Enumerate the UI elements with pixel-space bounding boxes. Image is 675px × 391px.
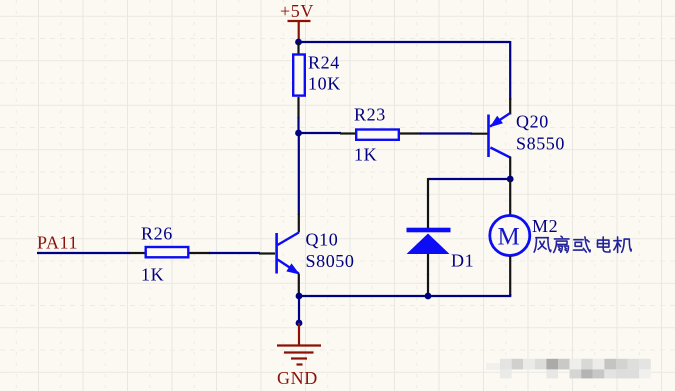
wire PA11 to R26: [37, 252, 130, 254]
pin Q10 collector: [298, 214, 300, 233]
pin M2 top: [509, 179, 511, 215]
pin R23 left: [340, 132, 355, 134]
svg-text:GND: GND: [277, 368, 318, 388]
label char huo (or): [574, 237, 591, 252]
wire bottom rail: [299, 294, 510, 296]
resistor R24: [293, 55, 305, 96]
node top junction: [295, 39, 302, 46]
wire top rail: [299, 41, 511, 43]
svg-text:D1: D1: [451, 251, 474, 271]
pin D1 cathode: [427, 195, 429, 228]
pin Q10 emitter: [298, 274, 300, 297]
svg-text:10K: 10K: [308, 74, 341, 94]
wire D1 cathode drop: [427, 178, 429, 196]
pin R24 top: [297, 42, 299, 54]
pin R26 left: [129, 252, 145, 254]
wire R23 to Q20: [420, 132, 472, 134]
svg-text:1K: 1K: [354, 145, 377, 165]
svg-text:R23: R23: [354, 105, 386, 125]
pin Q20 emitter: [509, 98, 511, 115]
svg-text:PA11: PA11: [37, 233, 78, 253]
pin D1 anode: [427, 254, 429, 275]
label char feng (wind): [534, 238, 551, 252]
svg-text:1K: 1K: [141, 265, 164, 285]
wire D1 anode to bottom rail: [427, 274, 429, 294]
wire Q20 emitter drop: [509, 41, 511, 100]
svg-text:+5V: +5V: [280, 1, 314, 21]
pin R26 right: [190, 252, 211, 254]
ground GND symbol: [277, 323, 321, 365]
power port +5V bar symbol: [288, 21, 311, 42]
label char shan (fan): [554, 236, 569, 252]
node Q10 emitter junction: [296, 293, 303, 300]
svg-text:M: M: [498, 224, 521, 251]
wire emitter junction to GND: [298, 296, 300, 323]
motor M2: [490, 216, 631, 256]
svg-text:R26: R26: [141, 224, 173, 244]
node D1 bottom junction: [425, 293, 432, 300]
pin M2 bottom: [509, 256, 511, 296]
transistor Q20 S8550: [487, 112, 565, 158]
label char ji (machine): [614, 237, 631, 253]
pin Q20 collector: [509, 157, 511, 180]
pin R24 bottom: [297, 97, 299, 118]
svg-text:R24: R24: [308, 53, 340, 73]
label fan-or-motor CJK: [534, 236, 631, 252]
label char dian (electric): [598, 237, 610, 252]
svg-text:M2: M2: [532, 216, 558, 236]
svg-text:S8050: S8050: [306, 251, 355, 271]
pin R23 right: [400, 132, 421, 134]
node GND junction: [296, 320, 303, 327]
svg-text:S8550: S8550: [516, 134, 565, 154]
node Q20 collector junction: [507, 176, 514, 183]
wire node to R23: [299, 132, 342, 134]
resistor R26: [146, 247, 189, 257]
wire R24 to node: [297, 117, 299, 133]
pin Q20 base: [471, 133, 488, 135]
node R23 junction: [295, 130, 302, 137]
wire R26 to Q10: [209, 252, 260, 254]
resistor R23: [356, 130, 399, 140]
transistor Q10 S8050: [275, 230, 354, 275]
svg-text:Q10: Q10: [306, 230, 339, 250]
svg-text:Q20: Q20: [516, 112, 549, 132]
wire D1 branch top: [428, 178, 510, 180]
pin Q10 base: [259, 252, 275, 254]
wire Q10 collector drop: [298, 133, 300, 215]
diode D1: [407, 228, 475, 271]
